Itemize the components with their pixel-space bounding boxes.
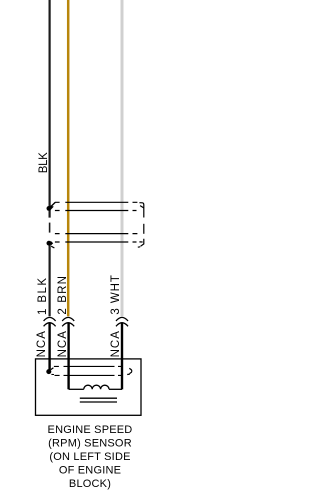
connector row 1 (in-line connector, upper) xyxy=(55,202,137,210)
connector row 1 right corner with arrow xyxy=(139,203,143,218)
svg-text:NCA: NCA xyxy=(110,331,122,358)
wire BRN (brown wire) xyxy=(67,0,70,316)
sensor internal connector dashed lines xyxy=(54,366,123,375)
inline connector symbol on wire 3 (two chevrons) xyxy=(116,317,128,326)
svg-text:(RPM) SENSOR: (RPM) SENSOR xyxy=(48,438,132,450)
svg-text:1 BLK: 1 BLK xyxy=(37,278,49,315)
svg-text:NCA: NCA xyxy=(36,331,48,358)
sensor box outline U1 xyxy=(36,359,142,415)
node dot wire 1 termination inside sensor xyxy=(46,368,54,375)
wire BLK dashed segment through in-line connector xyxy=(49,223,51,233)
svg-text:2 BRN: 2 BRN xyxy=(57,276,69,315)
inline connector symbol on wire 1 (two chevrons) xyxy=(44,317,56,326)
svg-text:(ON LEFT SIDE: (ON LEFT SIDE xyxy=(49,451,130,463)
connector dashed right edge between rows xyxy=(143,224,145,234)
connector row 2 right corner with arrow xyxy=(138,239,144,247)
wire WHT (light gray wire) xyxy=(121,0,124,316)
wire BLK (black wire, upper segment) xyxy=(48,0,50,218)
svg-text:3 WHT: 3 WHT xyxy=(110,275,122,315)
wire 3 black segment below connector into sensor xyxy=(121,323,123,390)
connector row 2 (in-line connector, lower) xyxy=(55,234,137,242)
inductor coil L1 (sensor pickup coil) xyxy=(69,385,122,389)
sensor internal connector right arrow xyxy=(127,368,132,374)
inductor core lines xyxy=(80,398,117,402)
wire BLK (black wire, lower segment to inline connector symbol) xyxy=(48,243,50,316)
node dot BLK at connector row 2 with arrow xyxy=(47,241,55,248)
node dot BLK at connector row 1 with arrow xyxy=(47,202,56,210)
svg-text:BLOCK): BLOCK) xyxy=(69,478,111,490)
svg-text:ENGINE SPEED: ENGINE SPEED xyxy=(48,424,133,436)
svg-text:OF ENGINE: OF ENGINE xyxy=(59,465,121,477)
inline connector symbol on wire 2 (two chevrons) xyxy=(62,317,74,326)
wire 2 black segment below connector into sensor xyxy=(67,323,69,389)
svg-text:NCA: NCA xyxy=(57,331,69,358)
label ENGINE SPEED (RPM) SENSOR caption xyxy=(48,424,133,490)
wire 1 black segment below connector into sensor xyxy=(48,323,50,370)
svg-text:BLK: BLK xyxy=(38,152,50,173)
